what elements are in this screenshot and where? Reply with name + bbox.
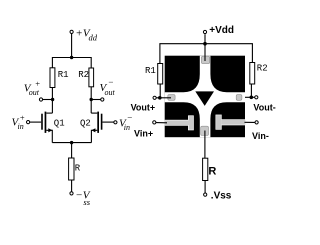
terminal +Vdd left (70, 30, 73, 33)
svg-text:Vout+: Vout+ (131, 103, 156, 113)
svg-text:R2: R2 (78, 70, 89, 80)
label Vin+ left figure (12, 112, 25, 131)
resistor R1 left figure (50, 68, 55, 88)
terminal Vin+ right figure (153, 121, 156, 124)
resistor R2 left figure (89, 68, 94, 87)
svg-text:out: out (105, 88, 116, 97)
gate T left gray (165, 116, 194, 130)
wire Vdd drop left figure (71, 34, 73, 58)
gate T right white outline (216, 115, 246, 130)
terminal Vout+ right figure (153, 96, 156, 99)
svg-text:Vin-: Vin- (252, 131, 269, 141)
gate T right gray (216, 115, 245, 129)
wire Vout+ stub (43, 99, 53, 101)
wire Vin+ to gate (156, 122, 167, 124)
svg-text:ss: ss (83, 197, 90, 207)
terminal Vin- (114, 121, 117, 124)
wire tail rail (52, 142, 91, 144)
gate T left white outline (165, 115, 194, 130)
label Vin- left figure (119, 112, 132, 132)
terminal -Vss left (70, 192, 73, 195)
terminal -Vss right figure (204, 193, 207, 196)
svg-text:out: out (29, 88, 40, 97)
wire R1 bottom to Q1 drain (51, 88, 53, 114)
wire Vout+ to pad (157, 97, 172, 99)
label -Vss left figure (75, 190, 90, 207)
wire Q1 source lead (46, 130, 52, 142)
wire tail to R (71, 143, 73, 158)
resistor R left figure (69, 158, 74, 180)
node dot Vdd rail (70, 56, 73, 59)
terminal +Vdd right (203, 30, 206, 33)
wire Q1 gate lead (30, 121, 42, 123)
svg-text:+: + (20, 112, 25, 122)
node dot Vout+ (51, 98, 54, 101)
svg-text:Vin+: Vin+ (134, 128, 153, 138)
MOS layout block background (165, 56, 245, 138)
svg-text:Vout-: Vout- (253, 103, 275, 113)
transistor Q2 (91, 112, 102, 133)
MOS layout white cross metal (165, 56, 245, 138)
svg-text:Q2: Q2 (80, 118, 91, 128)
wire pad to Vout- (241, 96, 255, 98)
svg-text:in: in (18, 122, 24, 131)
pad Vout+ left (168, 95, 175, 101)
resistor R right figure (203, 158, 208, 180)
wire Q1 drain lead (46, 112, 52, 114)
overlay wires right figure (156, 34, 255, 158)
node dot Vout- (90, 98, 93, 101)
svg-text:Q1: Q1 (54, 118, 65, 128)
svg-text:R: R (75, 164, 81, 174)
wire top rail right figure (160, 44, 253, 64)
node dot Vout+ right figure (158, 96, 162, 100)
svg-text:dd: dd (89, 33, 98, 43)
terminal Vout- (101, 98, 104, 101)
wire R2 bottom to Q2 drain (90, 87, 92, 113)
svg-text:R2: R2 (257, 64, 268, 74)
wire R to Vss right figure (204, 181, 206, 194)
pad tail bottom (201, 126, 209, 135)
wire Q2 gate lead (102, 121, 114, 123)
MOS layout center black triangle (195, 91, 214, 106)
svg-text:+: + (35, 79, 40, 89)
wire Q2 source lead (91, 130, 97, 142)
svg-text:−: − (127, 112, 132, 122)
pad Vout- right (236, 95, 242, 101)
node dot tail (70, 141, 73, 144)
wire stem to Vin- (245, 121, 255, 123)
pad Vdd top (201, 56, 209, 63)
terminal Vin- right figure (255, 121, 258, 124)
transistor Q1 (41, 112, 52, 133)
svg-text:R1: R1 (145, 66, 156, 76)
svg-text:in: in (124, 123, 130, 132)
node dot Vout- right figure (250, 96, 254, 100)
wire R to Vss (71, 180, 73, 192)
node dot Vdd rail right (203, 42, 207, 46)
svg-text:−: − (108, 77, 113, 87)
terminal Vout+ (39, 98, 42, 101)
svg-text:R: R (208, 165, 216, 177)
wire R1 bottom (159, 84, 161, 98)
label Vout+ left figure (24, 79, 41, 97)
wire Q2 drain lead (91, 112, 97, 114)
wire R2 bottom (250, 84, 252, 97)
resistor R2 right figure (250, 63, 255, 85)
terminal Vin+ (27, 121, 30, 124)
svg-text:R1: R1 (58, 70, 69, 80)
wire Vout- stub (91, 99, 101, 101)
wire top rail left figure (52, 58, 91, 69)
terminal Vout- right figure (255, 96, 258, 99)
label Vout- left figure (100, 77, 116, 97)
label +Vdd left figure (75, 27, 97, 42)
svg-text:+Vdd: +Vdd (209, 25, 234, 36)
resistor R1 right figure (158, 64, 163, 85)
svg-text:.Vss: .Vss (211, 191, 232, 202)
wire Vdd drop right figure (204, 34, 206, 61)
wire bottom pad to R (204, 131, 206, 159)
